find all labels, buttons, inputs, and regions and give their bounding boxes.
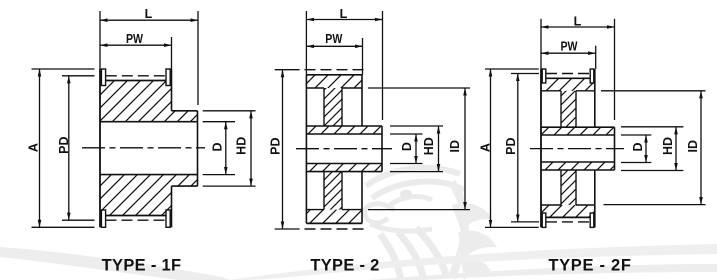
p1 hub bottom edge bbox=[172, 185, 198, 187]
p2 dim HD top extension bbox=[390, 125, 443, 127]
watermark right swirl 2 bbox=[458, 230, 497, 259]
svg-text:L: L bbox=[340, 7, 348, 21]
p3 rim hatch bottom bbox=[541, 205, 595, 217]
p1 body top edge bbox=[100, 80, 172, 82]
p2 dim PD top extension bbox=[275, 69, 300, 71]
svg-text:D: D bbox=[400, 142, 414, 151]
p1 dim HD line bbox=[250, 111, 252, 186]
p1 hub top edge bbox=[172, 110, 198, 112]
p2 centerline bbox=[296, 148, 392, 150]
watermark eagle crest band 1 bbox=[366, 168, 460, 186]
p3 pitch dash bottom bbox=[546, 221, 590, 223]
p2 hub hatch top band bbox=[306, 126, 382, 134]
p2 rim inner line bottom bbox=[306, 209, 324, 211]
p3 rim inner line bottom bbox=[541, 204, 561, 206]
p3 web right edge bottom bbox=[575, 170, 577, 205]
p3 dim ID line bbox=[700, 91, 702, 205]
p3 flange tab top-left bbox=[542, 69, 546, 83]
p3 hub top line bbox=[541, 126, 615, 128]
p2 dim D line bbox=[415, 134, 417, 164]
p2 dim D top extension bbox=[390, 133, 423, 135]
p2 dim ID bottom extension bbox=[368, 209, 470, 211]
p3 bore bottom line bbox=[541, 161, 615, 163]
watermark eagle neck 1 bbox=[380, 234, 401, 280]
p1 flange tab bottom-right bbox=[166, 210, 170, 227]
p3 web hatch top bbox=[561, 91, 576, 127]
p2 bore top line bbox=[306, 133, 382, 135]
p1 body hatch lower bbox=[100, 175, 172, 216]
p2 web left edge top bbox=[323, 88, 325, 126]
p1 flange tab bottom-left bbox=[101, 210, 105, 227]
svg-text:D: D bbox=[211, 142, 225, 151]
watermark bottom band right 2 bbox=[370, 264, 717, 280]
p1 hub hatch upper band bbox=[172, 111, 198, 122]
p3 web hatch bottom bbox=[561, 170, 576, 205]
watermark eagle eye bbox=[400, 190, 412, 199]
p1 dim A top extension bbox=[32, 68, 95, 70]
watermark eagle crest band 2 bbox=[372, 182, 464, 198]
watermark eagle neck 3 bbox=[416, 228, 447, 278]
p2 dim PW line bbox=[306, 45, 362, 47]
p1 dim A bottom extension bbox=[32, 226, 95, 228]
p1 hub right face bbox=[197, 111, 199, 186]
p3 dim HD line bbox=[675, 127, 677, 171]
svg-text:PW: PW bbox=[126, 32, 143, 46]
p1 dim PD bottom extension bbox=[62, 219, 95, 221]
p3 bore top line bbox=[541, 134, 615, 136]
p3 rim inner line top bbox=[541, 90, 561, 92]
p3 dim HD bottom extension bbox=[621, 170, 683, 172]
p2 hub bottom line bbox=[306, 171, 382, 173]
svg-text:A: A bbox=[479, 143, 493, 152]
p2 dim HD bottom extension bbox=[390, 171, 443, 173]
p3 dim PW line bbox=[541, 52, 596, 54]
p1 dim PD top extension bbox=[62, 75, 95, 77]
p2 rim hatch top bbox=[306, 75, 362, 88]
p3 dim A bottom extension bbox=[485, 226, 539, 228]
p3 dim PD top extension bbox=[511, 73, 539, 75]
svg-text:ID: ID bbox=[448, 140, 462, 153]
svg-text:TYPE - 2F: TYPE - 2F bbox=[548, 257, 631, 275]
p2 hub hatch bottom band bbox=[306, 164, 382, 172]
watermark eagle neck 2 bbox=[398, 232, 424, 280]
p3 dimensions bbox=[485, 19, 706, 228]
p1 dim HD top extension bbox=[203, 110, 256, 112]
p1 dim PW right extension bbox=[171, 37, 173, 69]
p1 dim A line bbox=[39, 69, 41, 227]
p3 dim L right extension bbox=[614, 19, 616, 120]
p1 dim L right extension bbox=[197, 11, 199, 105]
p1 dim HD bottom extension bbox=[203, 185, 256, 187]
p3 dim PD line bbox=[517, 74, 519, 222]
svg-text:A: A bbox=[27, 143, 41, 152]
p1 body right edge upper bbox=[171, 69, 173, 111]
p1 body bottom edge bbox=[100, 215, 172, 217]
p1 dim L line bbox=[100, 19, 198, 21]
watermark eagle beak bbox=[365, 204, 394, 223]
p3 dim PW right extension bbox=[595, 46, 597, 69]
svg-text:HD: HD bbox=[235, 137, 249, 155]
p3 dim D bottom extension bbox=[621, 162, 651, 164]
p2 web hatch bottom bbox=[324, 172, 342, 210]
p1 dim PW line bbox=[100, 44, 172, 46]
p1 dimensions bbox=[32, 11, 256, 227]
p1 dim L left extension bbox=[99, 11, 101, 69]
p1 dim D top extension bbox=[203, 121, 235, 123]
p3 dim HD top extension bbox=[621, 126, 683, 128]
watermark right swirl 3 bbox=[461, 258, 491, 280]
svg-text:TYPE - 1F: TYPE - 1F bbox=[102, 257, 182, 275]
p2 pitch dash top bbox=[305, 69, 369, 71]
p2 rim hatch bottom bbox=[306, 210, 362, 224]
p1 centerline bbox=[82, 147, 205, 149]
p1 bore top line bbox=[100, 121, 198, 123]
p1 body hatch upper bbox=[100, 81, 172, 122]
p1 dim D line bbox=[225, 122, 227, 175]
p1 flange tab top-right bbox=[166, 69, 170, 86]
p3 flange tab bottom-left bbox=[542, 213, 546, 227]
p2 web left edge bottom bbox=[323, 172, 325, 210]
p2 dim L right extension bbox=[382, 11, 384, 120]
p3 flange tab bottom-right bbox=[590, 213, 594, 227]
p3 flange tab top-right bbox=[590, 69, 594, 83]
p1 pitch dash top bbox=[106, 75, 166, 77]
svg-text:D: D bbox=[631, 142, 645, 151]
p3 hub hatch top band bbox=[541, 127, 615, 135]
p2 hub top line bbox=[306, 125, 382, 127]
svg-text:TYPE - 2: TYPE - 2 bbox=[310, 257, 379, 275]
p2 dim ID line bbox=[464, 88, 466, 210]
p3 web right edge top bbox=[575, 91, 577, 127]
watermark right swirl 1 bbox=[452, 203, 493, 231]
p2 rim inner line top bbox=[306, 87, 324, 89]
p2 dim ID top extension bbox=[368, 87, 470, 89]
p2 bore bottom line bbox=[306, 163, 382, 165]
p2 body right edge upper bbox=[361, 75, 363, 126]
p3 hub right face bbox=[614, 127, 616, 170]
svg-text:PW: PW bbox=[325, 32, 342, 46]
p3 web left edge bottom bbox=[560, 170, 562, 205]
p2 dim PW right extension bbox=[362, 38, 364, 75]
p3 dim L line bbox=[541, 26, 615, 28]
p1 dim PD line bbox=[68, 76, 70, 220]
p2 dim L line bbox=[306, 19, 382, 21]
p2 dim HD line bbox=[438, 126, 440, 172]
p2 dim D bottom extension bbox=[390, 163, 423, 165]
p2 dim PD line bbox=[282, 70, 284, 229]
svg-text:PW: PW bbox=[561, 40, 578, 54]
p1 dim D bottom extension bbox=[203, 174, 235, 176]
p1 pitch dash bottom bbox=[106, 219, 167, 221]
p1 body right edge lower bbox=[171, 186, 173, 227]
p2 pitch dash bottom bbox=[305, 228, 369, 230]
p1 bore bottom line bbox=[100, 174, 198, 176]
svg-text:ID: ID bbox=[686, 140, 700, 153]
p2 dim L left extension bbox=[305, 11, 307, 75]
watermark bottom band right bbox=[230, 244, 717, 280]
p2 web hatch top bbox=[324, 88, 342, 126]
watermark swoosh bottom-left bbox=[0, 247, 230, 280]
p2 web right edge bottom bbox=[341, 172, 343, 210]
p3 web left edge top bbox=[560, 91, 562, 127]
p3 centerline bbox=[530, 148, 624, 150]
svg-text:HD: HD bbox=[661, 137, 675, 155]
svg-text:PD: PD bbox=[268, 138, 282, 155]
p3 body bottom edge bbox=[541, 216, 595, 218]
p3 hub hatch bottom band bbox=[541, 162, 615, 170]
p3 left face bbox=[540, 69, 542, 227]
watermark eagle jaw bbox=[370, 224, 432, 231]
p3 body top edge bbox=[541, 77, 595, 79]
p1 hub hatch lower band bbox=[172, 175, 198, 187]
p3 dim A line bbox=[490, 69, 492, 227]
p2 dimensions bbox=[275, 11, 470, 229]
p3 right face lower bbox=[594, 170, 596, 227]
p3 hub bottom line bbox=[541, 169, 615, 171]
p3 dim A top extension bbox=[485, 68, 539, 70]
p3 dim D line bbox=[645, 135, 647, 163]
svg-text:PD: PD bbox=[504, 138, 518, 155]
p3 dim D top extension bbox=[621, 134, 651, 136]
p3 pitch dash top bbox=[546, 73, 590, 75]
p3 dim ID bottom extension bbox=[604, 204, 706, 206]
p3 dim PD bottom extension bbox=[511, 221, 539, 223]
p2 dim PD bottom extension bbox=[275, 228, 300, 230]
p2 hub right face bbox=[381, 126, 383, 172]
svg-text:L: L bbox=[145, 7, 153, 21]
p2 body top edge bbox=[306, 74, 362, 76]
p3 right face upper bbox=[594, 69, 596, 127]
p2 body bottom edge bbox=[306, 222, 362, 224]
svg-text:PD: PD bbox=[57, 137, 71, 154]
svg-text:HD: HD bbox=[422, 137, 436, 155]
p3 rim hatch top bbox=[541, 78, 595, 91]
watermark eagle brow bbox=[390, 197, 432, 205]
svg-text:L: L bbox=[574, 15, 582, 29]
p2 body right edge lower bbox=[361, 172, 363, 224]
p2 web right edge top bbox=[341, 88, 343, 126]
p2 left face bbox=[305, 75, 307, 224]
p3 dim ID top extension bbox=[601, 90, 706, 92]
p3 dim L left extension bbox=[540, 19, 542, 69]
p1 left face bbox=[99, 69, 101, 227]
p1 flange tab top-left bbox=[101, 69, 105, 86]
watermark eagle back bbox=[452, 182, 465, 278]
